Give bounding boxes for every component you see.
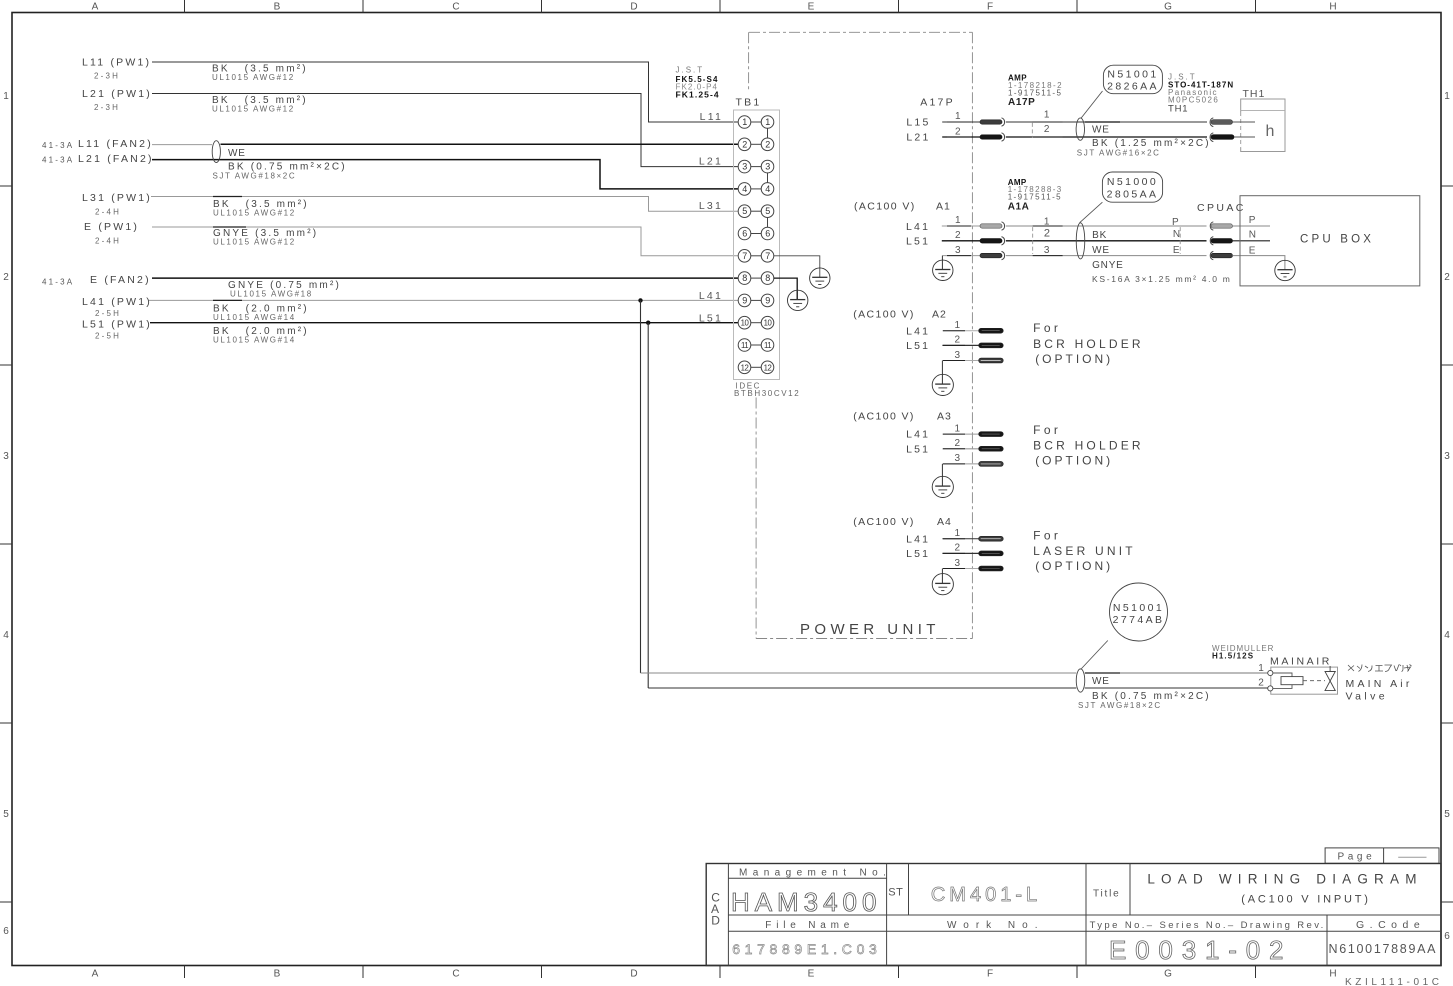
- svg-text:CM401-L: CM401-L: [931, 884, 1041, 906]
- TB1 pin 8 terminal pair: [738, 272, 774, 285]
- wire E to CPU ground: [1232, 256, 1285, 270]
- wire A2 pin2: [942, 344, 978, 346]
- svg-text:SJT AWG#18×2C: SJT AWG#18×2C: [1078, 701, 1162, 710]
- svg-text:1: 1: [955, 215, 961, 226]
- svg-text:L51: L51: [906, 443, 930, 455]
- svg-text:h: h: [1266, 123, 1275, 140]
- connector A2 label: [853, 309, 947, 321]
- pin number 1 on cable side: [1032, 109, 1062, 122]
- svg-text:UL1015 AWG#12: UL1015 AWG#12: [212, 73, 295, 82]
- svg-text:N610017889AA: N610017889AA: [1329, 942, 1438, 956]
- node L21 (PW1) label: [82, 88, 152, 112]
- label main air valve japanese: [1348, 665, 1412, 672]
- svg-text:B: B: [274, 2, 281, 13]
- pin number 1 of A17P: [947, 111, 971, 122]
- svg-text:N51001: N51001: [1113, 602, 1164, 614]
- svg-text:L41: L41: [699, 290, 723, 302]
- svg-text:1: 1: [742, 117, 747, 127]
- svg-text:A3: A3: [937, 410, 952, 422]
- svg-text:F: F: [987, 969, 993, 980]
- connector A1 contact 1: [980, 224, 1002, 228]
- svg-text:FK1.25-4: FK1.25-4: [676, 89, 720, 99]
- connector CPUAC contact P: [1210, 222, 1213, 230]
- svg-text:WE: WE: [1092, 245, 1110, 256]
- svg-text:D: D: [630, 969, 637, 980]
- pin number 3 of A1: [947, 245, 971, 256]
- svg-text:H1.5/12S: H1.5/12S: [1212, 651, 1254, 660]
- svg-text:C: C: [452, 969, 459, 980]
- pin number 2 of A2: [943, 335, 965, 346]
- connector A4 contact 3: [979, 566, 1004, 571]
- svg-text:4: 4: [3, 630, 9, 641]
- svg-text:41-3A: 41-3A: [42, 141, 74, 150]
- wire A3 pin2: [942, 448, 978, 450]
- wire P into CPU BOX: [1232, 225, 1270, 227]
- svg-text:2: 2: [765, 139, 770, 149]
- svg-text:9: 9: [742, 295, 747, 305]
- TB1 pin 9 terminal pair: [738, 294, 774, 307]
- connector A1 contact 2: [980, 239, 1002, 243]
- label AMP connector part numbers A17P: [1008, 73, 1063, 108]
- svg-text:1-917511-5: 1-917511-5: [1008, 192, 1062, 201]
- svg-text:L41: L41: [906, 429, 930, 441]
- TB1 pin 1 terminal pair: [738, 116, 774, 129]
- svg-text:(AC100 V): (AC100 V): [854, 201, 916, 213]
- svg-text:E: E: [1173, 245, 1180, 256]
- svg-text:For: For: [1033, 423, 1061, 437]
- svg-text:A17P: A17P: [920, 96, 955, 108]
- wire A3 pin3 to ground: [941, 464, 943, 486]
- svg-text:G: G: [1164, 969, 1172, 980]
- svg-text:2-4H: 2-4H: [95, 208, 121, 217]
- svg-text:3: 3: [955, 350, 961, 361]
- svg-text:D: D: [630, 2, 637, 13]
- svg-text:L21 (PW1): L21 (PW1): [82, 88, 152, 100]
- svg-text:2805AA: 2805AA: [1107, 189, 1159, 201]
- svg-text:3: 3: [3, 451, 9, 462]
- Page box: [1325, 848, 1439, 863]
- svg-text:5: 5: [742, 206, 747, 216]
- TB1 pin 5 terminal pair: [738, 205, 774, 218]
- svg-text:L51: L51: [906, 235, 930, 247]
- svg-text:UL1015 AWG#12: UL1015 AWG#12: [213, 209, 296, 218]
- title block outline: [706, 864, 1441, 966]
- wire label WE A17P cable: [1085, 122, 1120, 135]
- wire label BK (2.0 mm2) for L51: [213, 326, 309, 345]
- svg-text:L11 (PW1): L11 (PW1): [82, 57, 151, 69]
- svg-text:P: P: [1249, 215, 1256, 226]
- cable marker oval FAN2 pair: [212, 141, 220, 163]
- TB1 pin 4 terminal pair: [738, 183, 774, 196]
- svg-text:1: 1: [3, 91, 9, 102]
- svg-text:L51 (PW1): L51 (PW1): [82, 318, 152, 330]
- wire E(PW1) to TB1 pin 7: [152, 227, 738, 256]
- pin number 2 of A4: [943, 543, 965, 554]
- svg-text:2: 2: [1444, 272, 1450, 283]
- connector A1 contact 3: [980, 253, 1002, 257]
- svg-text:2: 2: [1044, 124, 1050, 135]
- label IDEC BTBH30CV12: [734, 381, 800, 398]
- wire N into CPU BOX: [1232, 240, 1270, 242]
- svg-text:4: 4: [742, 184, 747, 194]
- svg-text:G: G: [1164, 2, 1172, 13]
- svg-text:11: 11: [741, 341, 748, 350]
- svg-text:(AC100 V): (AC100 V): [853, 410, 915, 422]
- connector TH1 mating contact 1: [1210, 118, 1232, 127]
- svg-text:3: 3: [1444, 451, 1450, 462]
- svg-text:1: 1: [1044, 109, 1050, 120]
- svg-text:KZIL111-01C: KZIL111-01C: [1345, 977, 1443, 986]
- svg-text:Page: Page: [1338, 851, 1376, 862]
- TB1 pin 12 terminal pair: [738, 361, 774, 374]
- pin number 3 of A3: [943, 453, 965, 464]
- svg-text:2: 2: [955, 230, 961, 241]
- label WEIDMULLER H1.5/12S: [1212, 644, 1274, 661]
- wire A1 pin2: [942, 240, 1207, 242]
- svg-text:2826AA: 2826AA: [1107, 81, 1159, 93]
- svg-text:H: H: [1329, 969, 1336, 980]
- svg-text:41-3A: 41-3A: [42, 277, 74, 286]
- svg-text:L21: L21: [906, 131, 930, 143]
- wire A3 pin1: [942, 433, 978, 435]
- svg-text:POWER UNIT: POWER UNIT: [800, 621, 940, 638]
- svg-text:4: 4: [765, 184, 770, 194]
- balloon N51000 2805AA: [1102, 172, 1162, 202]
- pin number 1 of A4: [943, 528, 965, 539]
- svg-text:2: 2: [955, 438, 961, 449]
- connector A3 contact 2: [979, 446, 1004, 451]
- svg-text:4: 4: [1444, 630, 1450, 641]
- svg-text:(AC100 V INPUT): (AC100 V INPUT): [1241, 894, 1370, 906]
- CPU BOX outline: [1240, 196, 1420, 286]
- TB1 pin 6 terminal pair: [738, 227, 774, 240]
- svg-text:(OPTION): (OPTION): [1035, 559, 1113, 573]
- svg-text:3: 3: [742, 162, 747, 172]
- thermostat TH1 box: [1241, 99, 1285, 152]
- TB1 pin 3 terminal pair: [738, 160, 774, 173]
- svg-text:TB1: TB1: [736, 97, 762, 109]
- ground symbol at A1: [933, 260, 953, 280]
- balloon N51001 2774AB: [1110, 583, 1168, 641]
- svg-text:3: 3: [955, 453, 961, 464]
- svg-text:LASER UNIT: LASER UNIT: [1033, 544, 1136, 558]
- pin number 3 of A4: [943, 558, 965, 569]
- svg-text:L31 (PW1): L31 (PW1): [82, 192, 152, 204]
- pin number 2 of A1: [947, 230, 971, 241]
- svg-text:MAINAIR: MAINAIR: [1270, 655, 1332, 667]
- node N label cable side: [1173, 229, 1180, 240]
- svg-text:2: 2: [955, 127, 961, 138]
- wire L21(PW1) to TB1 pin 3: [152, 94, 738, 167]
- svg-text:6: 6: [1444, 931, 1450, 942]
- balloon N51001 2826AA: [1103, 65, 1162, 94]
- node L31 (PW1) label: [82, 192, 152, 217]
- frame column ticks top: [185, 0, 1256, 13]
- wire A17P pin2 (BK) to TH1: [942, 136, 1207, 138]
- svg-text:3: 3: [1044, 245, 1050, 256]
- node E (PW1) label: [84, 221, 139, 246]
- frame column letters bottom: [92, 969, 1337, 980]
- pin number 2 of A3: [943, 438, 965, 449]
- svg-text:41-3A: 41-3A: [42, 156, 74, 165]
- wire BK to main air valve: [648, 687, 1267, 689]
- svg-text:2774AB: 2774AB: [1113, 614, 1165, 626]
- label J.S.T FK terminal types: [676, 66, 720, 100]
- svg-text:2-5H: 2-5H: [95, 309, 121, 318]
- wire L11(FAN2) to TB1 pin 2: [152, 143, 738, 145]
- svg-text:BCR HOLDER: BCR HOLDER: [1033, 337, 1144, 351]
- wire L11(PW1) to TB1 pin 1: [152, 62, 738, 122]
- connector A2 contact 3: [979, 358, 1004, 363]
- svg-text:BK: BK: [1092, 230, 1107, 241]
- svg-text:UL1015 AWG#18: UL1015 AWG#18: [230, 289, 313, 298]
- node L41 (PW1) label: [82, 296, 152, 318]
- svg-text:D: D: [711, 914, 720, 928]
- wire branch L51 down to MAINAIR (BK): [647, 323, 649, 688]
- svg-text:L41 (PW1): L41 (PW1): [82, 296, 152, 308]
- frame column ticks bottom: [185, 966, 1256, 979]
- frame row numbers left: [3, 91, 9, 937]
- connector A2 contact 2: [979, 343, 1004, 348]
- wire A4 pin1: [942, 538, 978, 540]
- svg-text:BCR HOLDER: BCR HOLDER: [1033, 439, 1144, 453]
- svg-text:A2: A2: [932, 309, 947, 321]
- TB1 pin 10 terminal pair: [738, 316, 774, 329]
- node L11 (FAN2) label: [42, 138, 153, 150]
- cable pin number 3 of A1A: [1033, 245, 1063, 256]
- svg-text:KS-16A 3×1.25 mm² 4.0 m: KS-16A 3×1.25 mm² 4.0 m: [1092, 274, 1232, 284]
- wire label GNYE (0.75 mm2) for E FAN2: [228, 280, 341, 298]
- TB1 jumper link pins 1-2: [767, 128, 769, 138]
- main air valve symbol: [1325, 666, 1335, 691]
- svg-text:L41: L41: [906, 533, 930, 545]
- connector A4 contact 1: [979, 536, 1004, 541]
- svg-text:2-3H: 2-3H: [94, 103, 120, 112]
- svg-text:L21 (FAN2): L21 (FAN2): [78, 153, 154, 165]
- svg-text:N: N: [1249, 230, 1256, 241]
- svg-text:7: 7: [765, 251, 770, 261]
- ground symbol at A3: [932, 476, 953, 497]
- TB1 jumper link pins 5-6: [767, 218, 769, 228]
- wire label BK (0.75 mm2x2C) main air: [1078, 691, 1211, 710]
- svg-text:L41: L41: [906, 221, 930, 233]
- title text LOAD WIRING DIAGRAM: [1147, 872, 1422, 906]
- label CAD: [711, 891, 720, 928]
- leader line from balloon N51000 to cable: [1080, 202, 1103, 223]
- label AMP connector part numbers A1A: [1008, 178, 1063, 213]
- svg-text:3: 3: [955, 245, 961, 256]
- svg-text:(AC100 V): (AC100 V): [853, 309, 915, 321]
- svg-text:N51000: N51000: [1107, 176, 1158, 188]
- svg-text:8: 8: [742, 273, 747, 283]
- node L11 (PW1) label: [82, 57, 151, 81]
- svg-text:A4: A4: [937, 516, 952, 528]
- svg-text:1: 1: [955, 423, 961, 434]
- svg-text:WE: WE: [228, 148, 246, 159]
- label MAIN Air Valve: [1346, 678, 1413, 702]
- label For BCR HOLDER (OPTION): [1033, 321, 1144, 366]
- node L51 (PW1) label: [82, 318, 152, 340]
- svg-text:L21: L21: [699, 156, 723, 168]
- connector A3 contact 1: [979, 432, 1004, 437]
- bundle divider dashes A17P: [1031, 123, 1033, 138]
- main air valve SV1 body: [1268, 667, 1338, 694]
- svg-text:6: 6: [3, 926, 9, 937]
- svg-text:TH1: TH1: [1168, 104, 1188, 115]
- svg-text:Type No.– Series No.– Drawing: Type No.– Series No.– Drawing Rev.: [1090, 920, 1326, 931]
- svg-text:L11 (FAN2): L11 (FAN2): [78, 138, 153, 150]
- svg-text:9: 9: [765, 295, 770, 305]
- svg-text:8: 8: [765, 273, 770, 283]
- cable pin number 2 of A1A: [1033, 228, 1063, 241]
- wire A2 pin1: [942, 330, 978, 332]
- svg-text:A1: A1: [936, 201, 951, 213]
- svg-text:L31: L31: [699, 200, 723, 212]
- label J.S.T STO-41T-187N Panasonic: [1168, 72, 1234, 114]
- svg-text:2-5H: 2-5H: [95, 331, 121, 340]
- svg-text:E: E: [808, 969, 815, 980]
- svg-text:WE: WE: [1092, 124, 1110, 135]
- svg-text:A1A: A1A: [1008, 201, 1030, 212]
- svg-text:BK (1.25 mm²×2C): BK (1.25 mm²×2C): [1092, 138, 1211, 149]
- cable marker oval main air cable: [1076, 669, 1085, 692]
- svg-text:Management No.: Management No.: [739, 867, 891, 878]
- svg-text:(OPTION): (OPTION): [1035, 454, 1113, 468]
- pin number 2 of A17P: [947, 127, 971, 138]
- svg-text:10: 10: [741, 319, 750, 328]
- svg-text:3: 3: [765, 162, 770, 172]
- junction dot L41 branch: [638, 298, 642, 302]
- svg-text:11: 11: [764, 341, 771, 350]
- connector A4 contact 2: [979, 551, 1004, 556]
- wire label BK (1.25 mm2x2C): [1077, 138, 1211, 158]
- svg-text:N51001: N51001: [1107, 68, 1158, 80]
- wire A1 pin1: [942, 225, 1207, 227]
- TB1 jumper link pins 3-4: [767, 173, 769, 183]
- wire L21(FAN2) to TB1 pin 4: [152, 160, 738, 189]
- svg-text:5: 5: [1444, 809, 1450, 820]
- svg-text:J.S.T: J.S.T: [676, 66, 705, 75]
- svg-text:12: 12: [764, 363, 772, 372]
- svg-text:GNYE: GNYE: [1092, 260, 1124, 271]
- svg-text:SJT AWG#16×2C: SJT AWG#16×2C: [1077, 149, 1161, 158]
- wire label BK (3.5 mm2) for L21: [212, 95, 308, 114]
- svg-text:TH1: TH1: [1243, 88, 1266, 100]
- wire label BK (3.5 mm2) for L11: [212, 64, 308, 83]
- svg-text:WE: WE: [1092, 676, 1110, 687]
- pin number 1 of A2: [943, 320, 965, 331]
- TB1 pin 2 terminal pair: [738, 138, 774, 151]
- connector A3 label: [853, 410, 952, 422]
- TB1 pin 11 terminal pair: [738, 339, 774, 352]
- wire A4 pin3 to ground: [941, 569, 943, 584]
- node E (FAN2) label: [42, 274, 151, 286]
- wire label BK (2.0 mm2) for L41: [213, 303, 309, 322]
- pin number 1 of A1: [947, 215, 971, 226]
- svg-text:ST: ST: [888, 887, 903, 899]
- node L21 (FAN2) label: [42, 153, 154, 165]
- wire L51(PW1) to TB1 pin 10: [150, 322, 738, 324]
- svg-text:2: 2: [1044, 228, 1050, 240]
- ground symbol in CPU BOX: [1275, 260, 1295, 280]
- connector TH1 mating contact 2: [1210, 133, 1234, 142]
- pin number 1 of A3: [943, 423, 965, 434]
- terminal block TB1 outline: [734, 110, 780, 380]
- wire WE to main air valve: [641, 672, 1268, 674]
- ground symbol at TB1 pin 7: [810, 268, 830, 288]
- svg-text:1: 1: [1258, 663, 1264, 674]
- label For LASER UNIT (OPTION): [1033, 529, 1136, 574]
- svg-text:E0031-02: E0031-02: [1109, 935, 1285, 965]
- svg-text:5: 5: [3, 809, 9, 820]
- svg-text:Valve: Valve: [1346, 690, 1389, 702]
- svg-text:H: H: [1329, 2, 1336, 13]
- svg-text:UL1015 AWG#14: UL1015 AWG#14: [213, 336, 296, 345]
- svg-text:L41: L41: [906, 325, 930, 337]
- svg-text:(OPTION): (OPTION): [1035, 352, 1113, 366]
- wire TB1 pin 7 to ground: [774, 256, 820, 277]
- svg-text:For: For: [1033, 321, 1061, 335]
- wire A17P pin1 (WE) to TH1: [942, 121, 1207, 123]
- wire E(FAN2) to TB1 pin 8: [152, 277, 738, 279]
- connector A17P contact pin 2: [980, 135, 1002, 139]
- svg-text:For: For: [1033, 529, 1061, 543]
- svg-text:1: 1: [955, 320, 961, 331]
- svg-text:1: 1: [955, 528, 961, 539]
- wire A1 pin3 to ground: [941, 256, 943, 270]
- svg-text:1: 1: [1444, 91, 1450, 102]
- POWER UNIT enclosure dash-dot boundary: [749, 32, 973, 638]
- wire A4 pin3: [942, 568, 978, 570]
- svg-text:UL1015 AWG#14: UL1015 AWG#14: [213, 313, 296, 322]
- connector A2 contact 1: [979, 328, 1004, 333]
- svg-text:SJT AWG#18×2C: SJT AWG#18×2C: [213, 172, 297, 181]
- svg-text:2: 2: [955, 543, 961, 554]
- cable marker oval A17P cable: [1076, 118, 1084, 140]
- ground symbol at A2: [932, 374, 953, 395]
- label For BCR HOLDER (OPTION): [1033, 423, 1144, 468]
- svg-text:2-4H: 2-4H: [95, 237, 121, 246]
- svg-text:CPU BOX: CPU BOX: [1300, 233, 1374, 245]
- svg-text:UL1015 AWG#12: UL1015 AWG#12: [213, 237, 296, 246]
- svg-text:A17P: A17P: [1008, 97, 1035, 108]
- wire label GNYE (3.5 mm2) for E: [213, 228, 318, 247]
- svg-text:A: A: [92, 969, 99, 980]
- wire TB1 pin 8 to ground: [774, 278, 797, 300]
- svg-text:1: 1: [765, 117, 770, 127]
- svg-text:2: 2: [742, 139, 747, 149]
- svg-text:A: A: [92, 2, 99, 13]
- svg-text:G.Code: G.Code: [1356, 919, 1425, 931]
- svg-text:N: N: [1173, 229, 1180, 240]
- leader line from balloon N51001 to cable: [1081, 91, 1103, 119]
- wire A1 pin3: [942, 255, 1206, 257]
- connector A17P contact pin 1: [980, 120, 1002, 124]
- wire A4 pin2: [942, 552, 978, 554]
- svg-text:7: 7: [742, 251, 747, 261]
- bundle divider dashes A1A: [1032, 227, 1034, 254]
- wire label BK (3.5 mm2) for L31: [213, 199, 309, 218]
- frame row ticks right: [1441, 186, 1453, 902]
- wire L41(PW1) to TB1 pin 9: [149, 299, 738, 301]
- svg-text:L11: L11: [700, 111, 723, 123]
- wire A2 pin3 to ground: [941, 361, 943, 385]
- svg-text:L15: L15: [906, 116, 930, 128]
- svg-text:6: 6: [742, 229, 747, 239]
- connector A1 left label: [854, 201, 951, 213]
- svg-text:F: F: [987, 2, 993, 13]
- wire branch L41 down to MAINAIR (WE): [640, 300, 642, 673]
